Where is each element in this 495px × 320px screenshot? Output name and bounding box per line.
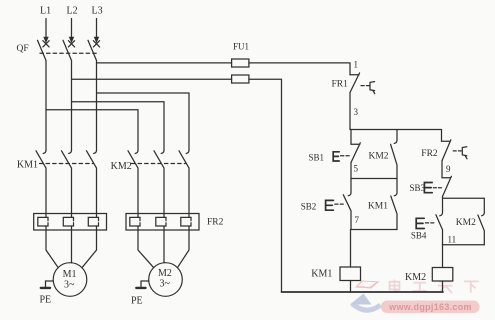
wire bottom rail (282, 291, 444, 293)
contactor KM2 pole 2 (154, 150, 164, 217)
svg-text:QF: QF (17, 44, 29, 54)
FR2 heater element 2 (156, 217, 166, 226)
contact KM1 aux NO (391, 179, 397, 230)
svg-text:KM1: KM1 (17, 160, 38, 171)
svg-text:9: 9 (446, 164, 451, 174)
watermark char xia (464, 281, 479, 292)
wire node 11 to coil KM2 (442, 245, 444, 268)
contact KM2 aux NO (seal-in) (391, 130, 397, 179)
watermark logo wing (355, 281, 380, 289)
wire node 3 drop (349, 93, 351, 130)
FR1 heater element 2 (63, 217, 73, 226)
wire node 9 drop (441, 161, 443, 178)
svg-text:KM1: KM1 (368, 202, 388, 212)
label FR2 main (207, 218, 224, 228)
label KM2 aux (369, 152, 389, 162)
motor M2 (149, 263, 183, 297)
contactor KM1 pole 1 (36, 150, 46, 217)
label L2 (67, 6, 78, 17)
watermark logo swoosh (352, 304, 381, 311)
contactor KM1 pole 3 (87, 150, 97, 217)
label KM2 main (111, 161, 132, 172)
label coil KM2 (405, 272, 426, 283)
wire L2 vertical (71, 61, 73, 151)
svg-text:L1: L1 (40, 6, 51, 17)
contact KM2 aux NO (seal-in right) (478, 198, 484, 244)
label KM1 main (17, 160, 38, 171)
fuse FU1a (232, 59, 249, 67)
wire FR2 to motor M2 leads (138, 226, 189, 268)
wire rail node 7 (351, 229, 397, 231)
overload relay FR1 heater box (34, 214, 107, 231)
svg-text:M2: M2 (158, 268, 172, 279)
label node 11 (448, 234, 457, 244)
contactor KM1 linkage dashed (40, 163, 94, 165)
coil KM2 (432, 268, 453, 282)
wire tap L1 to KM2 pole1 (46, 110, 138, 151)
svg-text:SB4: SB4 (411, 231, 427, 241)
label KM2 aux right (456, 218, 476, 228)
label FU1 (233, 42, 249, 52)
breaker QF pole 1 (38, 40, 50, 60)
wire fuse FU1a to node 1 (249, 63, 350, 75)
svg-text:5: 5 (354, 164, 359, 174)
breaker QF pole 2 (63, 40, 75, 60)
node L2 (70, 19, 74, 42)
overload relay FR2 heater box (126, 214, 199, 231)
svg-text:3~: 3~ (160, 279, 171, 290)
label SB1 (309, 152, 325, 162)
breaker QF linkage dashed (40, 52, 97, 54)
label FR1 (332, 80, 349, 90)
button SB1 (333, 130, 360, 179)
label L1 (40, 6, 51, 17)
watermark banner (381, 301, 480, 314)
svg-text:SB2: SB2 (301, 202, 317, 212)
label node 3 (354, 107, 359, 117)
button SB4 (416, 198, 442, 244)
svg-text:3: 3 (354, 107, 359, 117)
watermark char dian (390, 280, 400, 292)
label node 7 (355, 215, 360, 225)
node L3 (95, 19, 99, 42)
svg-text:FR2: FR2 (421, 149, 438, 159)
svg-text:SB1: SB1 (309, 152, 325, 162)
wire FR1 to motor M1 leads (46, 226, 97, 268)
label SB3 (410, 183, 426, 193)
button SB3 (424, 176, 451, 198)
FR2 heater element 1 (130, 217, 140, 226)
coil KM1 (340, 267, 361, 281)
wire tap L3 to KM2 pole3 (97, 93, 190, 150)
contactor KM2 pole 3 (179, 150, 189, 217)
wire rail node 5 (351, 178, 397, 180)
label PE right (131, 296, 143, 307)
label M2 (158, 268, 172, 290)
watermark char tian (438, 282, 453, 293)
svg-text:PE: PE (131, 296, 143, 307)
FR2 heater element 3 (181, 217, 191, 226)
thermal contact FR2 (442, 130, 468, 161)
node L1 (44, 19, 48, 42)
label coil KM1 (311, 268, 332, 279)
wire L1 vertical (45, 61, 47, 151)
svg-text:KM1: KM1 (311, 268, 332, 279)
svg-text:KM2: KM2 (405, 272, 426, 283)
svg-text:7: 7 (355, 215, 360, 225)
thermal contact FR1 (350, 73, 375, 94)
wire tap L3 to fuse FU1a (97, 62, 232, 64)
label KM1 aux (368, 202, 388, 212)
svg-text:SB3: SB3 (410, 183, 426, 193)
label FR2 contact (421, 149, 438, 159)
wire coil KM1 to bottom rail (350, 281, 352, 293)
fuse FU1b (232, 75, 249, 83)
svg-text:L3: L3 (92, 6, 103, 17)
label node 5 (354, 164, 359, 174)
contactor KM1 pole 2 (62, 150, 72, 217)
svg-text:KM2: KM2 (369, 152, 389, 162)
contactor KM2 pole 1 (128, 150, 138, 217)
label node 1 (354, 60, 359, 70)
svg-text:L2: L2 (67, 6, 78, 17)
svg-text:3~: 3~ (64, 280, 75, 291)
label SB2 (301, 202, 317, 212)
wire tap L2 to fuse FU1b (72, 78, 232, 80)
svg-text:M1: M1 (63, 269, 77, 280)
svg-text:KM2: KM2 (456, 218, 476, 228)
svg-text:www.dgpj163.com: www.dgpj163.com (388, 302, 472, 312)
ground PE motor M1 (41, 281, 54, 288)
label node 9 (446, 164, 451, 174)
ground PE motor M2 (136, 281, 149, 288)
watermark char gong (413, 283, 428, 291)
wire fuse FU1b to left rail (249, 79, 282, 292)
wire rail node 11 (443, 244, 485, 246)
motor M1 (53, 263, 87, 297)
svg-text:1: 1 (354, 60, 359, 70)
wire rail node 3 (350, 129, 442, 131)
button SB2 (326, 179, 351, 230)
label M1 (63, 269, 77, 291)
svg-text:11: 11 (448, 234, 457, 244)
wire node 7 to coil KM1 (350, 230, 352, 268)
label QF (17, 44, 29, 54)
svg-text:FR1: FR1 (332, 80, 349, 90)
label PE left (40, 295, 52, 306)
label L3 (92, 6, 103, 17)
svg-text:KM2: KM2 (111, 161, 132, 172)
wire tap L2 to KM2 pole2 (72, 102, 165, 151)
wire rail node 9 (443, 197, 485, 199)
wire coil KM2 to bottom rail (442, 281, 444, 292)
breaker QF pole 3 (88, 40, 100, 60)
wire L3 vertical (96, 61, 98, 151)
label SB4 (411, 231, 427, 241)
watermark logo sail (350, 294, 372, 305)
FR1 heater element 3 (88, 217, 98, 226)
svg-text:FR2: FR2 (207, 218, 224, 228)
svg-text:PE: PE (40, 295, 52, 306)
svg-text:FU1: FU1 (233, 42, 249, 52)
FR1 heater element 1 (38, 217, 48, 226)
contactor KM2 linkage dashed (132, 163, 186, 165)
